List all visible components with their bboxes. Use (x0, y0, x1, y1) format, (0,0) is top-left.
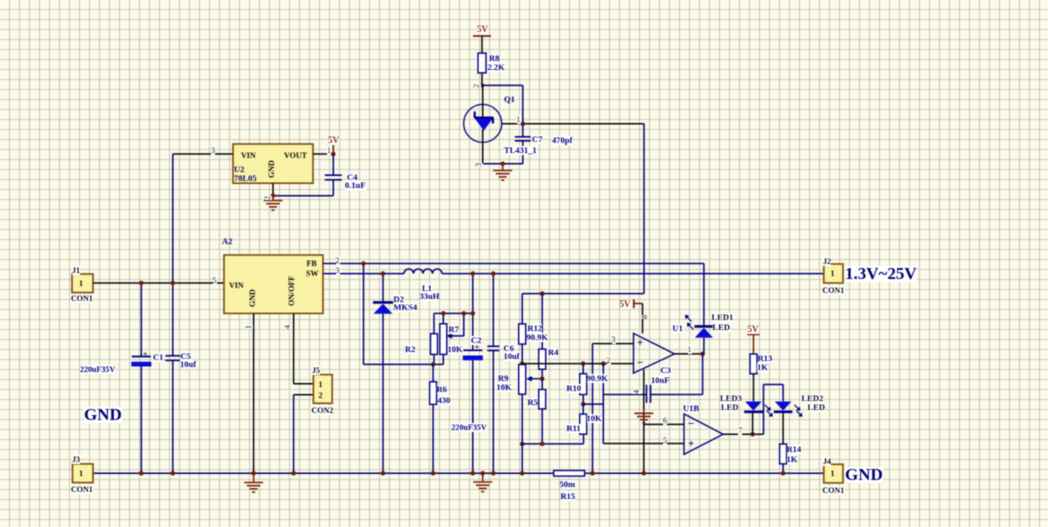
wire: bottom chain horizontal R9-R5-R11 (522, 443, 583, 445)
LED2 emission arrows (794, 405, 800, 415)
wire: R2 bottom stem (433, 354, 435, 364)
resistor R10 90.9K (580, 374, 587, 395)
wire: R10 top stem (582, 364, 584, 374)
wire: bypass vertical pin2 node down to pin5 (602, 364, 604, 444)
junction: pin3 wire on ground bus (590, 471, 595, 476)
label R15 value 50m (560, 480, 576, 489)
label LED3 value (721, 403, 738, 412)
pin number 4 of A2 (rotated) (283, 325, 292, 329)
label 5V at R13 (748, 325, 759, 334)
label 5V above R8 (477, 25, 488, 34)
wire: R11 top stem (582, 404, 584, 414)
junction: R4 chain on ref line (540, 291, 545, 296)
wire: R14 bottom to bus (782, 464, 784, 473)
label D2 designator (394, 295, 404, 304)
label R7 value 10K (448, 345, 463, 354)
LED D3 (LED3) (745, 402, 762, 411)
label C1 value 220uF35V (80, 365, 115, 374)
label LED2 value (808, 403, 825, 412)
pin number 3 of U1A (612, 335, 616, 344)
U1B minus input marker (688, 420, 694, 429)
ground symbol under TL431 (502, 164, 504, 171)
pin 2 of J5 (319, 391, 323, 400)
label C7 value 470pf (552, 136, 572, 145)
label 5V at U1A (620, 300, 631, 309)
resistor R9 pot 10K (519, 365, 526, 395)
label J4 designator (823, 457, 831, 466)
label R10 value 90.9K (587, 374, 609, 383)
wire: C6 top stem from SW bus (492, 274, 494, 347)
label R14 value 1K (787, 455, 798, 464)
wire: C1 bottom stem to ground bus (140, 367, 142, 474)
resistor R4 (539, 349, 546, 369)
pin 1 of J1 (79, 279, 83, 288)
label R14 designator (787, 445, 802, 454)
wire: output down for feedback (702, 354, 704, 395)
U1B plus input marker (688, 440, 694, 449)
resistor R12 90.9K (519, 324, 526, 344)
pin number 1 of TL431 (517, 115, 521, 124)
label U2 designator (234, 165, 244, 174)
junction: R8 / TL431 cathode node (480, 83, 485, 88)
net label GND left (84, 407, 122, 423)
label C4 designator (347, 173, 357, 182)
capacitor C7 470pf (522, 124, 524, 137)
wire: LED3 cathode to output junction (752, 412, 754, 435)
label A2 designator (222, 237, 232, 246)
label R13 designator (758, 354, 773, 363)
junction: U2 GND node (271, 193, 276, 198)
pin 1 of J4 (831, 469, 835, 478)
junction: D2 on ground bus (381, 471, 386, 476)
label J2 designator (823, 257, 831, 266)
wire: U2 pin3 VIN lead (173, 153, 233, 155)
pin number 5 of U1B (663, 436, 667, 445)
wire: U1A output lead (675, 353, 703, 355)
pin number 6 of U1B (663, 416, 667, 425)
label L1 value 33uH (420, 292, 440, 301)
junction: bypass vertical on pin2 wire (601, 361, 606, 366)
resistor R7 (preset 10K) (442, 313, 444, 323)
label C6 designator (504, 344, 514, 353)
pin name VIN of A2 (229, 281, 244, 290)
wire: R4 top stem (541, 294, 543, 350)
label R5 designator (528, 398, 538, 407)
capacitor C5 10uf (165, 355, 180, 357)
wire: J5 pin2 down to ground bus (293, 395, 295, 474)
U1A minus input marker (637, 359, 643, 368)
label LED1 (712, 313, 734, 322)
label C1 designator (153, 353, 163, 362)
wire: C5 bottom stem to ground bus (172, 360, 174, 473)
wire: FB sense vertical from FB wire (363, 264, 365, 365)
net label 1.3V~25V (845, 266, 917, 282)
junction: FB sense on FB wire (361, 261, 366, 266)
wire: C6 bottom stem to bus (492, 351, 494, 474)
net label GND right (845, 467, 883, 483)
pin number 2 of TL431 (rotated) (472, 84, 481, 88)
wire: J5 pin1 stub (294, 383, 314, 385)
label LED1 value LED (713, 323, 730, 332)
pin number 3 of TL431 (rotated) (474, 163, 483, 167)
wire: LED1 top from FB corner done above; LED D1 symbol (694, 325, 712, 328)
label R6 designator (437, 385, 447, 394)
wire: R12 bottom stem (521, 344, 523, 364)
wire: C1 top stem from J1 wire (140, 283, 142, 357)
label J1 designator (72, 266, 80, 275)
junction: C1 on ground bus (139, 471, 144, 476)
inductor L1 33uH (404, 269, 442, 274)
wire: 5V to R13 (753, 334, 755, 354)
junction: C5 on ground bus (171, 471, 176, 476)
resistor R6 430 (430, 382, 437, 405)
wire: LED1 bottom stem to output node (703, 338, 705, 354)
power port 5V for U1A pin8 (633, 300, 635, 309)
op-amp U1B triangle (684, 414, 723, 455)
label C7 designator (532, 135, 542, 144)
ground symbol below bus at C2 area (482, 473, 484, 482)
junction: C6 on SW bus (491, 271, 496, 276)
label C5 value (180, 360, 196, 369)
junction: R6 on ground bus (431, 471, 436, 476)
ground symbol below U2 (272, 196, 274, 201)
resistor R15 50m shunt (horizontal, in bus) (554, 471, 585, 477)
capacitor C4 0.1uF (325, 174, 342, 176)
pin name SW of A2 (306, 269, 318, 278)
wire: U2 pin1 VOUT lead to 5V port (313, 153, 333, 155)
pin 1 of J5 (319, 380, 323, 389)
label LED2 designator (802, 394, 824, 403)
wire: R7 wiper to top node (448, 335, 464, 337)
resistor R5 (541, 379, 543, 390)
junction: C1 on J1 wire (139, 281, 144, 286)
label J3 CON1 (71, 485, 93, 494)
junction: R7 wiper top (462, 311, 467, 316)
pin number 1 of U2 (327, 146, 331, 155)
label R13 value 1K (757, 363, 768, 372)
wire: LED2 cathode to R14 (782, 412, 784, 444)
op-amp U1A triangle (634, 333, 675, 373)
label R7 designator (449, 325, 459, 334)
pin name GND of A2 (rotated) (248, 289, 257, 307)
wire: C2 bottom stem to bus (472, 360, 474, 473)
label R8 value 2.2K (488, 63, 505, 72)
wire: TL431 ref pin right (502, 123, 644, 125)
junction: R5 bottom on chain (540, 442, 545, 447)
junction: ground column on bus (642, 471, 647, 476)
label R11 designator (567, 424, 581, 433)
pin number 8 of U1A (rotated) (640, 315, 649, 319)
pin name GND of U2 (rotated) (267, 160, 276, 178)
junction: R4/R5/wiper node (540, 376, 545, 381)
TL431 internal symbol (474, 118, 493, 131)
wire: A2 FB pin2 wire to LED1 corner (323, 263, 704, 265)
wire: output node horizontal (R2/R7 tops) (434, 312, 473, 314)
wire: R6 top stem (432, 364, 434, 381)
wire: C2 top stem from SW bus (472, 274, 474, 351)
label J3 designator (72, 455, 80, 464)
label U1B designator (683, 404, 699, 413)
pin number 3 of A2 (336, 266, 340, 275)
pin number 4 of U1A (rotated) (632, 390, 641, 394)
pin number 7 of U1B (738, 426, 742, 435)
connector J2 output (824, 264, 843, 283)
wire: U1A pin4 / ground column (643, 370, 645, 474)
junction: R10 top on pin2 wire (581, 361, 586, 366)
wire: R13 to LED3 anode (753, 374, 755, 402)
connector J4 (824, 464, 843, 483)
wire: U2 VIN drop wire (x=172.8) from pin3 down to J1 wire (172, 154, 174, 283)
pin number 1 of U1A (688, 345, 692, 354)
wire: ref horizontal to R12/R4 (522, 293, 644, 295)
wire: feedback horizontal right segment (651, 394, 703, 396)
label C3 designator (661, 366, 671, 375)
label C5 designator (181, 352, 191, 361)
junction: R7 top (441, 311, 446, 316)
label R8 designator (489, 54, 499, 63)
wire: R11 bottom stem to chain (583, 434, 585, 444)
power port 5V at U2 VOUT (328, 143, 339, 145)
wire: J5 pin2 stub (294, 394, 314, 396)
junction: J5 pin2 on bus (291, 471, 296, 476)
wire: U1A pin2 lead from R12/R9 node (522, 363, 633, 365)
LED D2b (LED2) (775, 402, 792, 411)
label R10 designator (567, 384, 582, 393)
wire: chain down to ground bus (521, 444, 523, 473)
label J2 CON1 (823, 286, 845, 295)
wire: A2 SW pin3 to inductor (323, 273, 404, 275)
wire: TL431 anode stem bottom (482, 130, 484, 164)
wire: 5V to R8 (481, 36, 483, 53)
wire: TL431 bottom rail (483, 163, 523, 165)
wire: bottom ground bus from R15 to J4 (585, 472, 824, 474)
pin 1 of J2 (831, 269, 835, 278)
capacitor C3 10nF (vertical plates) (646, 385, 648, 403)
wire: R4 bottom stem (541, 369, 543, 378)
wire: C4 bottom rail to U2 GND (273, 195, 333, 197)
wire: R10/R11 node to bypass vertical (583, 403, 603, 405)
label R9 value 10K (497, 383, 512, 392)
wire: R9 bottom stem (521, 394, 523, 444)
label L1 designator (422, 284, 432, 293)
wire: FB sense horizontal to R2/R7 bottoms (364, 363, 444, 365)
pin number 2 of U1A (607, 356, 611, 365)
junction: A2 GND on bus (251, 471, 256, 476)
junction: C2 at output node horizontal (471, 311, 476, 316)
pin number 2 of U2 (rotated) (263, 196, 272, 200)
connector J1 (72, 274, 93, 293)
R9 wiper arrow (529, 378, 543, 380)
transistor/regulator Q1 TL431 circle (464, 104, 502, 142)
pin number 5 of A2 (213, 276, 217, 285)
wire: TL431 cathode stem top (482, 85, 484, 117)
U1A plus input marker (637, 339, 643, 348)
label J1 CON1 (71, 294, 93, 303)
junction: U2 feed on J1 wire (171, 281, 176, 286)
ground symbol on U1A ground column (643, 409, 645, 413)
wire: SW output bus from inductor to J2 (442, 273, 824, 275)
power port 5V above R8 (473, 35, 491, 37)
connector J5 CON2 (313, 375, 332, 404)
wire: R12 top stem (521, 294, 523, 324)
junction: D2 on SW bus (381, 271, 386, 276)
label R12 designator (528, 324, 543, 333)
label R6 value 430 (438, 396, 451, 405)
wire: TL431 ref long vertical down (643, 124, 645, 294)
junction: U1A output node (700, 352, 705, 357)
wire: node to C7 column (482, 84, 523, 86)
wire: pin3 vertical down to ground bus right of R15 (592, 344, 594, 474)
wire: bottom ground bus from J3 to R15 (93, 472, 554, 474)
label Q1 designator (504, 95, 515, 104)
wire: C5 top stem (172, 283, 174, 356)
junction: R10/R11 node (581, 402, 586, 407)
wire: C4 top stem (332, 154, 334, 175)
label R15 designator (561, 492, 576, 501)
label 220uF35V under C2 (452, 423, 487, 432)
wire: U2 pin2 GND stub (272, 183, 274, 196)
junction: C2 on SW bus (471, 271, 476, 276)
pin name ON/OFF of A2 (rotated) (287, 275, 296, 305)
resistor R8 2.2K (478, 53, 486, 73)
resistor R11 10K (580, 414, 587, 434)
pin 1 of J3 (79, 469, 83, 478)
label C6 value (504, 352, 520, 361)
connector J3 (73, 464, 94, 483)
LED3 emission arrows (765, 405, 771, 415)
label J4 CON1 (823, 486, 845, 495)
pin number 2 of A2 (336, 256, 340, 265)
label R2 designator (405, 345, 415, 354)
wire: R5 bottom stem (541, 409, 543, 444)
capacitor C1 (electrolytic 220uF) (132, 356, 151, 358)
wire: feedback horizontal left segment (603, 394, 646, 396)
wire: C4 bottom stem (332, 180, 334, 196)
pin number 3 of U2 (211, 146, 215, 155)
wire: R2 top stem (433, 313, 435, 333)
label 5V at U2 (328, 136, 339, 145)
pin number 1 of A2 (rotated) (244, 325, 253, 329)
label U2 value 78L05 (234, 174, 257, 183)
wire: D2 top stem from SW bus (382, 274, 384, 303)
LED1 emission arrows (686, 316, 693, 329)
junction: LED3 cathode on output (750, 432, 755, 437)
pin name VIN of U2 (241, 151, 256, 160)
resistor R13 1K (750, 354, 757, 374)
ground symbol below bus at A2 GND (253, 473, 255, 482)
wire: R7 bottom stem (442, 354, 444, 364)
power port 5V above R13 (748, 333, 760, 335)
wire: R8 bottom to node (481, 73, 483, 86)
wire: FB corner down to LED1 (703, 264, 705, 327)
pin name VOUT of U2 (284, 151, 307, 160)
wire: pin8 down to U1A top (642, 304, 644, 334)
label C2 designator (471, 336, 481, 345)
wire: J1 to A2 VIN (93, 282, 224, 284)
wire: R10 bottom stem (582, 395, 584, 405)
capacitor C2 (electrolytic 220uF) (463, 349, 482, 351)
wire: A2 pin4 ON/OFF down to J5 pin1 (293, 313, 295, 383)
IC U2 78L05 body (233, 144, 313, 183)
wire: U1B output lead (723, 433, 763, 435)
junction: R2 bottom node (431, 362, 436, 367)
wire: U1A pin3 lead (593, 343, 634, 345)
label LED3 designator (720, 394, 742, 403)
label TL431_1 (504, 146, 537, 155)
label J5 designator (312, 366, 320, 375)
junction: chain on ground bus (520, 471, 525, 476)
label J5 CON2 (312, 406, 334, 415)
diode D2 (cathode bar up) (373, 301, 393, 304)
label U1 (LED1 designator) (673, 324, 683, 333)
IC A2 switching regulator body (224, 255, 323, 313)
resistor R14 1K (780, 444, 787, 464)
wire: R6 bottom stem to bus (432, 404, 434, 473)
junction: R9 bottom / horizontal (520, 442, 525, 447)
R7 wiper arrow (448, 335, 455, 337)
junction: R14 on ground bus (781, 471, 786, 476)
pin name FB of A2 (307, 259, 317, 268)
label R4 designator (548, 348, 558, 357)
label C1 plus sign (143, 350, 148, 359)
label D2 value (394, 303, 418, 312)
wire: U1B pin5 lead (603, 443, 684, 445)
wire: U1B pin6 lead (644, 423, 684, 425)
resistor R2 (431, 334, 438, 355)
wire: branch U from output to LED2 (763, 385, 765, 435)
wire: A2 pin1 GND down to bus (253, 313, 255, 473)
junction: C6 on ground bus (491, 471, 496, 476)
label R11 value 10K (587, 414, 602, 423)
label R9 designator (498, 374, 508, 383)
capacitor C6 10uf (487, 345, 499, 347)
junction: R12/R9/pin2 node (520, 361, 525, 366)
label R12 value 90.9K (527, 333, 549, 342)
label C4 value (345, 181, 366, 190)
label C3 value 10nF (651, 376, 669, 385)
wire: D2 bottom stem to ground bus (382, 314, 384, 474)
label C2 plus (475, 343, 480, 352)
junction: C7 top on ref wire (521, 121, 526, 126)
junction: ground on rail (500, 162, 505, 167)
junction: C2 on ground bus (471, 471, 476, 476)
